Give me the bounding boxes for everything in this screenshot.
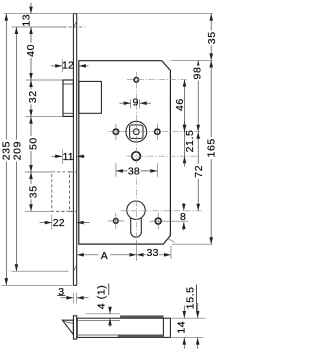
svg-text:38: 38 xyxy=(128,166,140,178)
svg-text:12: 12 xyxy=(62,59,74,71)
bottom view faceplate xyxy=(73,316,76,339)
ext line latch top xyxy=(26,79,63,81)
side hole left xyxy=(113,129,118,134)
follower outer circle xyxy=(126,121,147,142)
centerline lower hole xyxy=(127,155,200,157)
dim 14 xyxy=(183,306,185,319)
latch head inner edges xyxy=(63,83,73,85)
dim 9 xyxy=(130,99,132,108)
dim 12 xyxy=(61,60,63,73)
dim 35 xyxy=(30,172,32,211)
svg-text:98: 98 xyxy=(192,67,204,80)
bottom view case xyxy=(77,318,170,337)
svg-text:4 (1): 4 (1) xyxy=(95,285,107,310)
fixing hole left (bold ring) xyxy=(113,219,118,224)
svg-text:A: A xyxy=(101,250,108,262)
ext line latch bottom xyxy=(26,116,63,118)
profile cylinder hole xyxy=(127,201,145,219)
bevel ext diagonal xyxy=(167,238,174,242)
dim 22 xyxy=(51,215,53,230)
ext line 209 bottom xyxy=(12,270,69,272)
dashed option box xyxy=(52,172,70,211)
bottom view cover ext line xyxy=(86,313,121,315)
dim 235 xyxy=(5,14,7,286)
lock case outline xyxy=(79,61,171,244)
svg-text:11: 11 xyxy=(63,151,74,163)
ext line top xyxy=(4,13,213,15)
svg-text:13: 13 xyxy=(20,14,32,27)
dim 40 xyxy=(30,27,32,80)
svg-text:40: 40 xyxy=(25,44,37,57)
svg-text:235: 235 xyxy=(0,141,12,160)
faceplate xyxy=(73,14,76,286)
svg-text:32: 32 xyxy=(27,90,39,103)
ext lines bottom view right xyxy=(170,317,205,319)
centerline cylinder xyxy=(121,210,202,212)
svg-text:3: 3 xyxy=(58,286,64,298)
centerline fixing hole right xyxy=(150,220,189,222)
latch head xyxy=(63,80,73,116)
dim 11 xyxy=(61,150,63,165)
ext line box bottom xyxy=(25,210,52,212)
dim 4 (1) xyxy=(109,307,111,314)
dim 13 xyxy=(30,3,32,14)
ext line case bottom right xyxy=(172,243,213,245)
dim 46 xyxy=(184,80,186,132)
centerline top hole xyxy=(127,79,188,81)
svg-text:35: 35 xyxy=(28,185,40,198)
svg-text:8: 8 xyxy=(180,211,186,223)
faceplate break mark xyxy=(73,265,76,271)
dim 165 xyxy=(210,60,212,244)
faceplate screw slot xyxy=(73,22,76,28)
bottom view top band xyxy=(120,315,163,318)
dim 50 xyxy=(30,117,32,172)
dim 3 xyxy=(72,293,74,304)
dim 98 xyxy=(197,60,199,131)
bottom view latch wedge xyxy=(62,320,73,334)
dim 32 xyxy=(30,80,32,117)
svg-text:46: 46 xyxy=(174,98,186,111)
side hole right xyxy=(155,129,160,134)
dim 15.5 xyxy=(197,303,199,318)
dim 8 xyxy=(183,203,185,211)
follower inner circle xyxy=(133,129,139,135)
top hole xyxy=(134,78,139,83)
centerline vertical xyxy=(135,72,137,241)
svg-text:14: 14 xyxy=(175,321,187,334)
dim 72 xyxy=(197,132,199,211)
svg-text:9: 9 xyxy=(133,97,139,109)
svg-text:33: 33 xyxy=(147,247,159,259)
svg-text:72: 72 xyxy=(193,165,205,178)
svg-text:50: 50 xyxy=(28,137,40,150)
ext line y27 xyxy=(12,26,64,28)
dim A xyxy=(136,241,138,261)
latch body xyxy=(79,81,102,113)
ext line box top xyxy=(25,171,52,173)
svg-text:15.5: 15.5 xyxy=(185,286,197,309)
svg-text:209: 209 xyxy=(12,141,24,160)
dim 33 xyxy=(170,246,172,259)
svg-text:21.5: 21.5 xyxy=(184,130,196,153)
svg-text:165: 165 xyxy=(206,138,216,157)
bottom view bottom band xyxy=(118,335,164,338)
centerline follower xyxy=(109,131,203,133)
lower hole xyxy=(132,152,141,161)
dim 38 xyxy=(115,163,117,177)
centerline fixing hole left xyxy=(108,220,125,222)
ext line case top right xyxy=(171,59,212,61)
follower square xyxy=(130,125,143,138)
fixing hole right (bold ring) xyxy=(155,218,161,224)
dim 35 right xyxy=(210,14,212,61)
svg-text:22: 22 xyxy=(53,217,65,229)
ext line plate bottom xyxy=(2,284,73,286)
dim 21.5 xyxy=(184,132,186,157)
dim 209 xyxy=(15,27,17,271)
svg-text:35: 35 xyxy=(206,31,216,44)
side hole ticks xyxy=(115,124,117,140)
